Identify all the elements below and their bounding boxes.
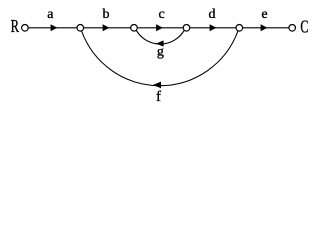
- svg-text:C: C: [300, 17, 308, 37]
- svg-text:f: f: [156, 89, 161, 104]
- svg-text:b: b: [103, 7, 110, 22]
- svg-text:d: d: [209, 7, 216, 22]
- svg-text:c: c: [158, 7, 164, 22]
- svg-text:R: R: [11, 16, 19, 36]
- svg-text:e: e: [261, 7, 267, 22]
- svg-text:g: g: [157, 45, 164, 60]
- svg-text:a: a: [47, 7, 54, 22]
